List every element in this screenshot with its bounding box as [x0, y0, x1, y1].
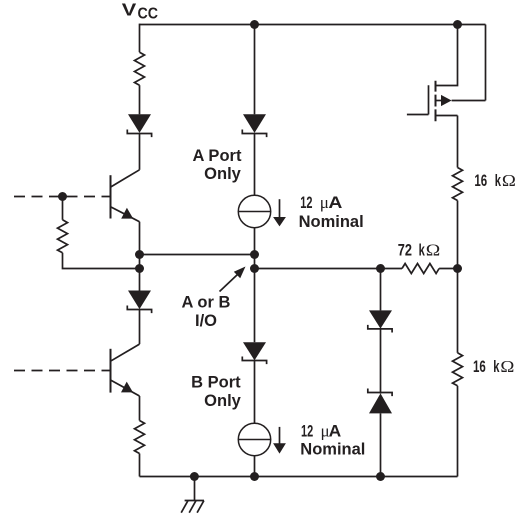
- schottky diode D2: [127, 291, 151, 314]
- transistor M1 MOSFET: [407, 25, 486, 168]
- label A or B I/O: [182, 293, 231, 330]
- node base A junction: [58, 192, 67, 201]
- svg-text:I/O: I/O: [195, 312, 217, 330]
- label 16 kOhm upper: [474, 171, 516, 190]
- wire bottom rail: [140, 476, 458, 478]
- wire R5 to bottom rail: [457, 386, 459, 477]
- arrow CS1 direction: [273, 199, 286, 226]
- wire R3 to bottom rail: [139, 454, 141, 477]
- node I/O upper center: [250, 250, 259, 259]
- resistor R5 16k lower: [453, 353, 463, 386]
- label 12 uA Nominal top: [299, 193, 364, 231]
- transistor Q1: [111, 170, 140, 222]
- node I/O upper left: [135, 264, 144, 273]
- wire mid rail right: [255, 268, 403, 270]
- label 16 kOhm lower: [473, 357, 514, 376]
- wire dashed base input A: [14, 196, 111, 198]
- label B Port Only: [191, 374, 242, 410]
- label 72 kOhm: [398, 241, 441, 260]
- wire R6 to right column: [439, 268, 457, 270]
- resistor R4 16k upper: [453, 168, 463, 201]
- svg-text:CC: CC: [138, 6, 159, 23]
- transistor Q2: [111, 344, 140, 396]
- wire R2 bottom to mid rail: [63, 253, 140, 269]
- resistor R6 72k: [402, 264, 439, 274]
- node bottom center: [250, 472, 259, 481]
- wire left column top: [139, 24, 141, 53]
- wire node to R2: [62, 197, 64, 220]
- svg-text:72kΩ: 72kΩ: [398, 241, 441, 260]
- svg-text:Only: Only: [204, 392, 241, 410]
- current source CS1: [238, 195, 270, 227]
- wire R1 to D1: [139, 85, 141, 114]
- schottky diode D6: [368, 389, 392, 414]
- node A or B I/O: [250, 264, 259, 273]
- svg-text:16kΩ: 16kΩ: [474, 171, 516, 190]
- wire left column mid: [139, 255, 141, 291]
- wire top rail VCC: [140, 24, 486, 26]
- arrow annotation to I/O node: [220, 267, 246, 292]
- node ground tap: [190, 472, 199, 481]
- schottky diode D1: [127, 114, 151, 137]
- wire diode branch top: [380, 269, 382, 311]
- label A Port Only: [193, 147, 242, 183]
- resistor R2: [58, 220, 68, 253]
- resistor R1: [135, 52, 145, 85]
- schottky diode D5: [368, 310, 392, 332]
- schottky diode D3 A port: [242, 114, 266, 137]
- svg-text:A or B: A or B: [182, 293, 231, 311]
- node emitter A: [135, 250, 144, 259]
- svg-text:12μA: 12μA: [300, 193, 342, 212]
- svg-text:V: V: [122, 0, 137, 19]
- label 12 uA Nominal bottom: [300, 422, 365, 459]
- svg-text:Nominal: Nominal: [299, 213, 364, 231]
- node VCC center: [250, 20, 259, 29]
- wire mid rail upper: [140, 254, 255, 256]
- wire CS1 to I/O node: [254, 228, 256, 343]
- svg-text:Nominal: Nominal: [300, 441, 365, 459]
- svg-text:B Port: B Port: [191, 374, 241, 392]
- wire D5 to D6: [380, 329, 382, 394]
- wire dashed base input B: [14, 370, 111, 372]
- svg-text:16kΩ: 16kΩ: [473, 357, 514, 376]
- node mid right column: [453, 264, 462, 273]
- current source CS2: [238, 423, 270, 455]
- wire CS2 to bottom rail: [254, 456, 256, 477]
- svg-text:12μA: 12μA: [301, 422, 341, 441]
- resistor R3: [135, 421, 145, 454]
- node diode branch top: [376, 264, 385, 273]
- wire R4 to mid node: [457, 201, 459, 269]
- node MOSFET drain top: [453, 20, 462, 29]
- wire mid node to R5: [457, 269, 459, 353]
- wire D4 to CS2: [254, 361, 256, 424]
- wire Q2 emitter to R3: [139, 396, 141, 421]
- wire D3 to CS1: [254, 134, 256, 196]
- arrow CS2 direction: [273, 427, 286, 454]
- svg-text:Only: Only: [204, 165, 241, 183]
- wire D2 to Q2 collector: [139, 310, 141, 345]
- wire Q1 emitter down: [139, 222, 141, 255]
- ground: [181, 477, 204, 513]
- node bottom diode branch: [376, 472, 385, 481]
- svg-text:A Port: A Port: [193, 147, 242, 165]
- schottky diode D4 B port: [242, 342, 266, 364]
- wire D1 to Q1 collector: [139, 134, 141, 170]
- label VCC: [122, 0, 159, 23]
- wire center column top: [254, 25, 256, 115]
- wire D6 to bottom rail: [380, 413, 382, 476]
